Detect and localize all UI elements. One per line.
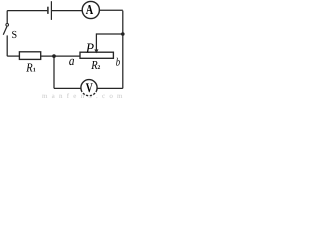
- svg-text:A: A: [86, 2, 94, 17]
- svg-text:V: V: [86, 80, 93, 95]
- svg-text:a: a: [69, 53, 75, 68]
- svg-text:2: 2: [98, 65, 101, 71]
- svg-text:S: S: [12, 29, 18, 41]
- svg-text:b: b: [116, 57, 121, 69]
- svg-text:P: P: [85, 41, 95, 56]
- svg-text:1: 1: [33, 68, 36, 74]
